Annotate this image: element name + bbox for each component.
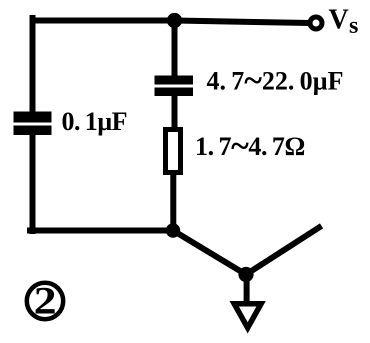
svg-text:1. 7~4. 7Ω: 1. 7~4. 7Ω	[195, 128, 305, 165]
node top junction	[167, 13, 182, 28]
svg-text:2: 2	[34, 280, 57, 323]
wire diagonal up-right	[246, 228, 319, 275]
wire ground stub	[244, 274, 250, 302]
wire middle between C1 and R1	[172, 95, 178, 128]
svg-text:0. 1µF: 0. 1µF	[62, 107, 128, 136]
svg-text:V: V	[329, 4, 349, 35]
node emitter junction	[238, 267, 253, 282]
wire middle below R1	[170, 174, 176, 231]
node bottom junction	[166, 223, 180, 237]
svg-text:s: s	[349, 13, 358, 39]
ground	[230, 301, 266, 334]
wire left vertical lower	[30, 134, 36, 231]
wire top horizontal	[33, 21, 308, 24]
capacitor C1 plates	[155, 76, 194, 85]
wire middle vertical upper	[172, 20, 178, 76]
resistor R1	[166, 130, 181, 173]
figure number circled 2	[27, 283, 63, 319]
wire bottom horizontal	[30, 228, 173, 234]
wire left vertical upper	[30, 18, 36, 112]
capacitor C2 plates	[14, 112, 52, 123]
terminal Vs circle	[310, 17, 322, 29]
wire diagonal down-right	[173, 231, 246, 275]
svg-text:4. 7~22. 0µF: 4. 7~22. 0µF	[207, 63, 344, 100]
